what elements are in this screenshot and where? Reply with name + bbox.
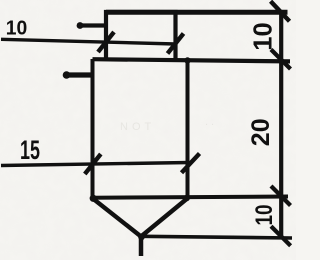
- svg-text:10: 10: [251, 205, 278, 226]
- svg-text:10: 10: [6, 16, 28, 39]
- svg-text:20: 20: [247, 118, 275, 146]
- svg-text:NOT: NOT: [120, 121, 155, 133]
- svg-text:15: 15: [20, 135, 40, 165]
- svg-text:10: 10: [249, 22, 277, 50]
- svg-text:..: ..: [205, 116, 217, 128]
